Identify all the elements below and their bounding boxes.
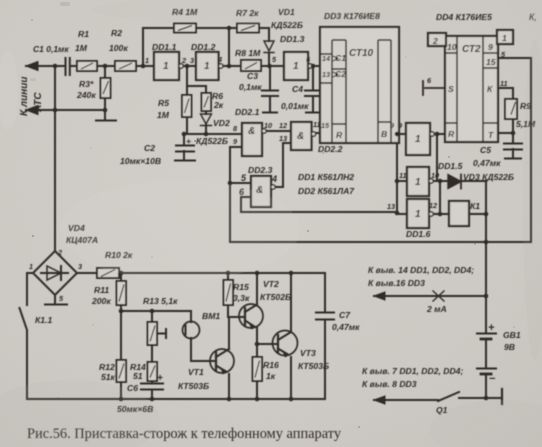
svg-text:10: 10 (447, 42, 457, 52)
svg-text:R1: R1 (78, 29, 89, 39)
svg-text:R8 1М: R8 1М (235, 48, 261, 58)
svg-text:51: 51 (133, 371, 143, 381)
svg-text:1: 1 (204, 61, 210, 72)
svg-text:12: 12 (429, 201, 437, 210)
svg-text:С2: С2 (335, 69, 346, 79)
svg-text:+: + (488, 322, 495, 334)
svg-text:R15: R15 (233, 282, 249, 292)
svg-text:4: 4 (217, 55, 222, 64)
svg-text:S: S (448, 84, 454, 94)
svg-text:R2: R2 (111, 28, 122, 38)
svg-text:VT1: VT1 (188, 367, 204, 377)
svg-text:КТ503Б: КТ503Б (298, 361, 329, 371)
svg-text:+: + (157, 373, 163, 384)
svg-text:К выв.16 DD3: К выв.16 DD3 (368, 278, 425, 288)
svg-text:VT3: VT3 (300, 348, 316, 358)
svg-text:1: 1 (29, 262, 33, 271)
svg-text:9В: 9В (504, 342, 515, 352)
svg-text:DD4 К176ИЕ5: DD4 К176ИЕ5 (436, 12, 492, 22)
svg-text:3: 3 (78, 262, 82, 271)
svg-text:1: 1 (415, 209, 421, 220)
svg-text:13: 13 (322, 70, 330, 79)
svg-text:R: R (448, 129, 455, 139)
svg-text:R: R (336, 130, 343, 140)
svg-text:12: 12 (279, 121, 287, 130)
svg-text:9: 9 (488, 42, 493, 52)
svg-text:ВМ1: ВМ1 (202, 311, 220, 321)
svg-text:14: 14 (322, 54, 330, 63)
svg-text:3: 3 (190, 56, 194, 65)
svg-text:С7: С7 (339, 310, 351, 320)
svg-text:СТ10: СТ10 (349, 48, 374, 59)
svg-text:КД522Б: КД522Б (196, 136, 228, 146)
svg-text:С1: С1 (335, 53, 346, 63)
svg-text:VT2: VT2 (263, 279, 279, 289)
svg-text:К выв. 14 DD1, DD2, DD4;: К выв. 14 DD1, DD2, DD4; (368, 265, 474, 275)
svg-text:4: 4 (271, 174, 277, 184)
svg-text:2 мА: 2 мА (426, 304, 447, 314)
svg-text:DD2.3: DD2.3 (248, 165, 273, 175)
svg-text:0,47мк: 0,47мк (473, 158, 501, 168)
svg-text:1М: 1М (75, 43, 88, 53)
svg-text:DD1.2: DD1.2 (191, 42, 216, 52)
svg-text:10мк×10В: 10мк×10В (120, 156, 161, 166)
svg-text:DD2.2: DD2.2 (318, 144, 343, 154)
svg-text:С3: С3 (247, 71, 258, 81)
svg-text:1: 1 (415, 177, 421, 188)
svg-text:240к: 240к (76, 90, 96, 100)
svg-text:С1 0,1мк: С1 0,1мк (33, 44, 69, 54)
svg-text:R12: R12 (99, 362, 115, 372)
svg-text:100к: 100к (109, 43, 128, 53)
svg-text:GB1: GB1 (503, 330, 521, 340)
svg-text:R13 5,1к: R13 5,1к (143, 296, 178, 306)
svg-text:&: & (297, 131, 304, 142)
svg-text:К линии: К линии (19, 76, 30, 116)
svg-text:13: 13 (279, 134, 287, 143)
svg-text:К выв. 7 DD1, DD2, DD4;: К выв. 7 DD1, DD2, DD4; (362, 366, 463, 376)
svg-text:КТ502Б: КТ502Б (260, 292, 291, 302)
svg-text:Т: Т (488, 130, 494, 140)
svg-text:3,3к: 3,3к (233, 293, 250, 303)
svg-text:0,1мк: 0,1мк (239, 82, 262, 92)
svg-text:&: & (248, 126, 255, 137)
svg-text:КТ503Б: КТ503Б (178, 381, 209, 391)
svg-text:+: + (186, 136, 191, 146)
svg-text:B: B (381, 129, 387, 139)
svg-text:R16: R16 (263, 360, 279, 370)
svg-text:0,47мк: 0,47мк (332, 322, 360, 332)
svg-text:2: 2 (181, 56, 186, 65)
svg-text:К1: К1 (470, 201, 480, 211)
svg-text:R5: R5 (158, 98, 169, 108)
svg-text:0,01мк: 0,01мк (281, 101, 309, 111)
svg-text:11: 11 (313, 120, 321, 129)
svg-text:С2: С2 (144, 143, 155, 153)
svg-text:1к: 1к (266, 371, 276, 381)
svg-text:R3*: R3* (79, 79, 94, 89)
svg-text:DD2 К561ЛА7: DD2 К561ЛА7 (298, 186, 355, 196)
svg-text:VD2: VD2 (213, 118, 230, 128)
svg-text:11: 11 (399, 171, 407, 180)
svg-text:10: 10 (431, 171, 439, 180)
svg-text:1: 1 (415, 134, 421, 145)
svg-text:DD2.1: DD2.1 (235, 107, 260, 117)
svg-text:1: 1 (502, 33, 507, 43)
svg-text:1: 1 (293, 61, 299, 72)
svg-text:DD1.6: DD1.6 (406, 229, 431, 239)
svg-text:К: К (487, 84, 493, 94)
svg-text:К1.1: К1.1 (35, 315, 52, 325)
svg-text:15: 15 (486, 57, 496, 67)
svg-text:51к: 51к (101, 372, 116, 382)
svg-text:1: 1 (145, 56, 149, 65)
svg-text:1: 1 (163, 61, 169, 72)
svg-text:С4: С4 (292, 84, 303, 94)
svg-text:11: 11 (500, 79, 508, 88)
svg-text:2: 2 (57, 248, 62, 257)
svg-text:200к: 200к (91, 296, 111, 306)
svg-text:СТ2: СТ2 (462, 44, 481, 55)
svg-text:1М: 1М (157, 110, 170, 120)
svg-text:−: − (489, 373, 496, 385)
svg-text:2к: 2к (213, 100, 224, 110)
svg-text:15: 15 (321, 121, 330, 130)
svg-text:АТС: АТС (33, 92, 44, 113)
svg-text:13: 13 (387, 202, 395, 211)
svg-text:DD1 К561ЛН2: DD1 К561ЛН2 (298, 172, 354, 182)
svg-text:К выв. 8 DD3: К выв. 8 DD3 (362, 379, 417, 389)
svg-text:R11: R11 (94, 285, 109, 295)
svg-text:10: 10 (264, 121, 272, 130)
svg-text:С5: С5 (480, 145, 491, 155)
svg-text:DD1.3: DD1.3 (280, 34, 305, 44)
svg-text:К,: К, (529, 12, 537, 22)
svg-text:DD1.1: DD1.1 (152, 42, 177, 52)
svg-text:2: 2 (432, 36, 438, 46)
svg-text:VD3 КД522Б: VD3 КД522Б (463, 172, 514, 182)
svg-text:DD1.5: DD1.5 (438, 161, 463, 171)
